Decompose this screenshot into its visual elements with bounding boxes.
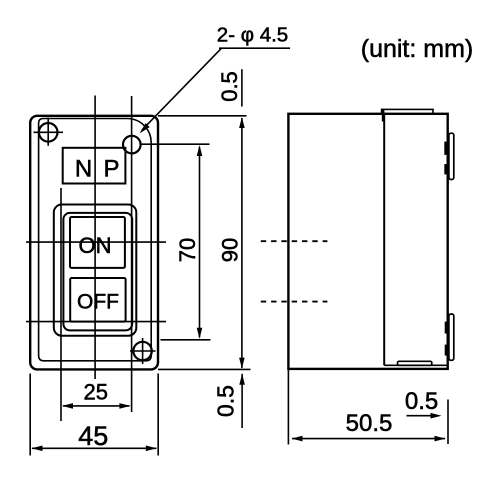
side view: inner bottom line	[384, 364, 448, 366]
svg-text:P: P	[103, 156, 119, 183]
70 dim bottom extension line	[161, 339, 211, 341]
bottom-right screw circle	[133, 342, 151, 360]
svg-text:70: 70	[175, 238, 200, 262]
bottom 0.5 dim line	[241, 374, 243, 428]
side view: top clip bar 1	[444, 142, 447, 155]
hole center extension line to right	[141, 143, 210, 145]
switch surround inner bezel	[63, 213, 132, 331]
50.5 dimension line	[292, 438, 445, 440]
svg-text:N: N	[75, 156, 92, 183]
45 left extension line	[29, 374, 31, 456]
side view: dashed line lower	[261, 301, 328, 303]
svg-text:45: 45	[78, 421, 108, 451]
svg-text:25: 25	[83, 380, 107, 405]
45 right extension line	[157, 374, 159, 456]
front view: panel outer outline	[30, 116, 158, 370]
left extension vertical line for 25 dim	[60, 188, 62, 421]
svg-text:50.5: 50.5	[346, 410, 393, 437]
bottom-right screw cross vertical	[142, 338, 144, 364]
panel bottom extension line	[158, 368, 251, 370]
top-left screw cross horizontal	[34, 131, 64, 133]
50.5 dim arrow right	[435, 436, 446, 442]
side 0.5 arrow line	[407, 415, 439, 417]
side view: front face line	[383, 114, 385, 365]
side view: dashed line upper	[261, 240, 328, 242]
bottom 0.5 arrow up	[239, 374, 245, 385]
front view: panel inner plate outline	[39, 119, 152, 361]
svg-text:0.5: 0.5	[213, 385, 239, 417]
bottom-right screw cross horizontal	[130, 350, 156, 352]
svg-text:2- φ 4.5: 2- φ 4.5	[217, 24, 288, 47]
vertical center line	[94, 96, 96, 380]
svg-text:(unit: mm): (unit: mm)	[361, 35, 474, 63]
svg-text:90: 90	[218, 238, 243, 262]
svg-text:0.5: 0.5	[405, 388, 438, 415]
ON button outline	[70, 217, 125, 268]
25 dim arrow left	[62, 403, 73, 409]
switch surround outer bezel	[54, 205, 137, 336]
svg-text:0.5: 0.5	[217, 71, 242, 102]
90 dim arrow up	[239, 117, 245, 128]
45 dimension line	[32, 447, 157, 449]
45 dim arrow right	[146, 446, 157, 452]
long horizontal construction line lower	[26, 321, 166, 323]
50.5 right extension line	[447, 400, 449, 445]
70 dimension line	[199, 147, 201, 338]
top-left screw circle	[39, 123, 58, 142]
side view: lip left thick tick	[382, 110, 385, 122]
90 dimension line	[241, 118, 243, 368]
leader underline	[219, 47, 290, 49]
70 dim arrow up	[197, 145, 203, 156]
25 dimension line	[63, 405, 130, 407]
leader diagonal line	[142, 48, 222, 130]
side view: top lip	[382, 109, 433, 113]
top-left screw cross vertical	[47, 118, 49, 146]
50.5 dim arrow left	[292, 436, 303, 442]
90 dim arrow down	[239, 358, 245, 369]
N P label box	[63, 148, 126, 184]
side view: top clip	[449, 133, 454, 179]
svg-text:OFF: OFF	[77, 291, 119, 314]
panel top extension line	[158, 115, 247, 117]
side view: top clip bar 2	[444, 164, 447, 174]
top 0.5 dim line	[241, 69, 243, 106]
25 dim arrow right	[119, 403, 130, 409]
50.5 left extension line	[287, 369, 289, 445]
side view: body outline	[288, 114, 447, 369]
hole extension vertical line	[131, 96, 133, 412]
side view: bottom clip bar 2	[445, 345, 448, 356]
side view: bottom foot	[398, 361, 432, 365]
side view: bottom clip	[449, 314, 454, 360]
45 dim arrow left	[32, 446, 43, 452]
leader arrowhead	[140, 123, 150, 133]
long horizontal construction line upper	[26, 241, 166, 243]
side view: bottom clip bar 1	[445, 322, 448, 334]
top-right mounting hole	[123, 136, 141, 154]
side 0.5 arrowhead	[431, 413, 442, 419]
OFF button outline	[70, 278, 125, 322]
70 dim arrow down	[197, 328, 203, 339]
